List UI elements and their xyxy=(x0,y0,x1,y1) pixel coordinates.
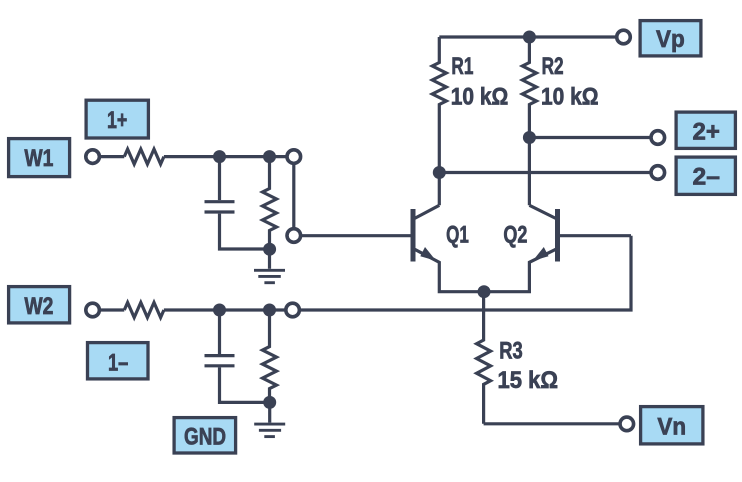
transistor Q1 xyxy=(414,205,440,219)
capacitor C top branch xyxy=(218,157,221,201)
terminal 2+ xyxy=(651,131,665,145)
svg-text:10 kΩ: 10 kΩ xyxy=(451,83,509,110)
svg-text:W1: W1 xyxy=(24,145,53,172)
wire top rail xyxy=(439,35,623,38)
resistor R2 xyxy=(522,37,536,205)
ground top xyxy=(268,249,271,269)
svg-text:GND: GND xyxy=(184,424,226,451)
terminal Vp xyxy=(617,30,631,44)
resistor to gnd bottom xyxy=(263,310,277,402)
label box 2+ xyxy=(676,112,735,148)
wire Vn xyxy=(484,422,627,425)
junction top rail/R2 xyxy=(523,31,536,44)
junction RC gnd top xyxy=(263,243,276,256)
junction R2/2+ xyxy=(523,131,536,144)
junction R1/2- xyxy=(433,166,446,179)
label box Vp xyxy=(640,21,701,56)
svg-text:15 kΩ: 15 kΩ xyxy=(498,367,559,394)
wire W2 to Q2 base xyxy=(293,236,631,310)
svg-text:10 kΩ: 10 kΩ xyxy=(541,83,599,110)
wire W2 row xyxy=(100,308,124,311)
label box 2- xyxy=(676,157,735,194)
wire Q1 base lead xyxy=(294,234,411,237)
wire 2- xyxy=(439,171,658,174)
wire Q2 base lead xyxy=(559,234,631,237)
terminal node 1 bottom xyxy=(287,229,301,243)
junction RC gnd bottom xyxy=(263,396,276,409)
svg-text:1+: 1+ xyxy=(107,107,127,134)
label box Vn xyxy=(641,407,703,444)
resistor input top xyxy=(124,149,164,164)
resistor R3 xyxy=(477,292,491,424)
junction W1/R xyxy=(263,150,276,163)
label box GND xyxy=(174,418,236,453)
terminal 2- xyxy=(651,166,665,180)
svg-text:Vn: Vn xyxy=(657,413,686,440)
terminal W1 xyxy=(86,150,100,164)
resistor input bottom xyxy=(124,303,164,318)
wire 2+ xyxy=(529,136,657,139)
terminal W2 xyxy=(86,303,100,317)
svg-text:2–: 2– xyxy=(693,164,720,191)
resistor R1 xyxy=(432,37,446,205)
svg-text:2+: 2+ xyxy=(693,119,720,146)
capacitor C bottom branch xyxy=(218,310,221,354)
wire W1 row xyxy=(100,155,124,158)
label box W2 xyxy=(9,287,70,323)
svg-text:R1: R1 xyxy=(451,53,473,80)
resistor to gnd top xyxy=(263,157,277,249)
svg-text:R3: R3 xyxy=(499,338,523,365)
arrow Q2 emitter xyxy=(533,247,549,261)
transistor Q2 xyxy=(529,205,557,219)
label box 1- xyxy=(88,343,149,379)
svg-text:1–: 1– xyxy=(108,350,128,377)
junction W1/C xyxy=(213,150,226,163)
svg-text:Q2: Q2 xyxy=(503,222,527,249)
terminal node 1 top xyxy=(287,150,301,164)
arrow Q1 emitter xyxy=(420,247,436,261)
svg-text:W2: W2 xyxy=(24,293,53,320)
label box W1 xyxy=(9,139,70,177)
ground bottom xyxy=(268,402,271,422)
label box 1+ xyxy=(86,100,148,138)
wire circle chain xyxy=(292,157,295,236)
terminal Vn xyxy=(620,417,634,431)
svg-text:R2: R2 xyxy=(542,53,564,80)
svg-text:Q1: Q1 xyxy=(446,222,469,249)
junction W2/C xyxy=(213,304,226,317)
svg-text:Vp: Vp xyxy=(656,26,685,53)
terminal W2 right xyxy=(286,303,300,317)
junction emitters xyxy=(478,285,491,298)
junction W2/R xyxy=(263,304,276,317)
